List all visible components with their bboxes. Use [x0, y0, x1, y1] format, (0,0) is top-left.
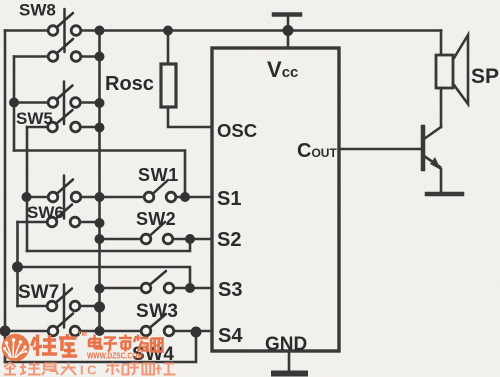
svg-text:SW5: SW5: [16, 109, 53, 128]
svg-text:TM: TM: [78, 331, 87, 338]
svg-text:S4: S4: [218, 325, 243, 347]
svg-text:SP: SP: [471, 65, 499, 88]
svg-text:OSC: OSC: [217, 120, 257, 141]
svg-text:S1: S1: [217, 188, 241, 210]
svg-text:SW2: SW2: [136, 209, 176, 229]
svg-text:SW1: SW1: [138, 165, 179, 185]
svg-text:S3: S3: [218, 279, 242, 301]
svg-text:S2: S2: [217, 229, 241, 251]
svg-text:GND: GND: [265, 334, 307, 355]
svg-text:SW8: SW8: [19, 1, 56, 20]
svg-text:WWW.DZSC.COM: WWW.DZSC.COM: [87, 351, 143, 361]
svg-text:SW3: SW3: [136, 301, 178, 322]
svg-text:SW7: SW7: [18, 282, 59, 303]
svg-text:Rosc: Rosc: [105, 73, 154, 95]
svg-text:SW6: SW6: [27, 203, 64, 222]
svg-text:IC: IC: [80, 363, 100, 377]
